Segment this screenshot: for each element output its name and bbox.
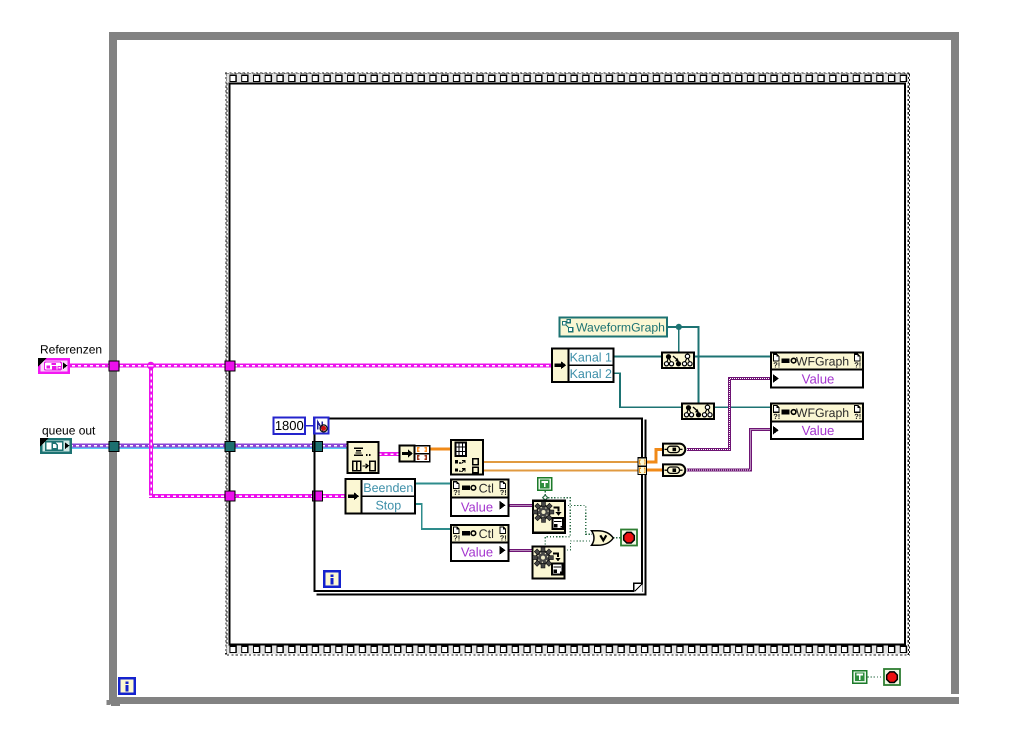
- dequeue element node: [348, 442, 379, 473]
- svg-text:Stop: Stop: [375, 498, 401, 512]
- wire: tunnel 1 to To-Variant 1: [646, 449, 663, 462]
- To Variant node 2: [663, 464, 685, 476]
- tunnel: Referenzen cluster through outer loop border: [109, 361, 119, 371]
- wire: tunnel 2 to To-Variant 2: [646, 469, 663, 472]
- flat sequence bottom sprocket band: [227, 645, 908, 654]
- svg-text:Ctl: Ctl: [479, 527, 494, 541]
- junction dot on WaveformGraph wire: [676, 324, 682, 330]
- svg-text:1800: 1800: [275, 418, 304, 433]
- svg-text:Kanal 1: Kanal 1: [570, 350, 612, 364]
- outer loop condition terminal (stop): [884, 669, 900, 685]
- wire: array row 2 to tunnel: [483, 469, 640, 471]
- wire: type wire branch to Variant-To-Data 2: [545, 498, 570, 547]
- svg-text:WFGraph: WFGraph: [796, 354, 849, 368]
- svg-text:Value: Value: [461, 499, 493, 514]
- property node WFGraph 1: [771, 353, 863, 388]
- svg-text:Ctl: Ctl: [479, 482, 494, 496]
- wire: 2D array from unbundle to matrix node: [430, 447, 452, 450]
- wire: Referenzen cluster wire branch down: [149, 364, 153, 497]
- unbundle by name node Kanal 1 / Kanal 2: [552, 349, 614, 383]
- wire: Referenzen cluster wire (terminal to Kanal unbundle): [66, 364, 553, 368]
- wire: queue out refnum wire from terminal into inner loop: [70, 443, 348, 449]
- unbundle by name node Beenden/Stop: [346, 479, 416, 514]
- wire: variant wire Ctl2 Value to Variant-To-Data 2: [509, 549, 533, 552]
- unbundle cluster node (2 array outputs): [400, 446, 430, 462]
- tunnel: cluster branch into inner while loop: [313, 491, 323, 501]
- to-more-specific-class node 2: [682, 404, 714, 420]
- svg-text:WaveformGraph: WaveformGraph: [576, 320, 665, 334]
- WaveformGraph control reference constant: [560, 318, 668, 337]
- svg-text:?!: ?!: [500, 488, 507, 497]
- wire: Stop boolean refnum to Ctl property node 2: [415, 504, 451, 529]
- matrix index node: [451, 440, 483, 475]
- tunnel: cluster branch through sequence border: [225, 491, 235, 501]
- to-more-specific-class node 1: [662, 353, 694, 369]
- svg-text:?!: ?!: [773, 412, 780, 421]
- svg-text:?!: ?!: [453, 488, 460, 497]
- tunnel: array 2 out of inner loop: [638, 466, 647, 474]
- terminal Referenzen (cluster of control refnums): [38, 358, 69, 373]
- wire: boolean T constant to outer loop condition: [868, 676, 885, 678]
- inner while loop border: [315, 419, 646, 595]
- svg-text:Value: Value: [802, 371, 835, 386]
- wire: boolean Variant2 to OR gate: [564, 541, 592, 550]
- junction on Referenzen wire: [147, 362, 155, 370]
- inner while loop resize fold corner: [634, 583, 643, 592]
- tunnel: queue out through outer loop border: [109, 442, 119, 452]
- wire: variant wire To-Variant 1 to WFGraph1 Value: [687, 378, 771, 449]
- inner loop condition terminal (stop): [621, 530, 637, 546]
- svg-text:?!: ?!: [500, 533, 507, 542]
- wire: array row 1 to tunnel: [483, 461, 640, 463]
- wire: boolean Variant1 to OR gate: [565, 506, 592, 535]
- Variant To Data node 1: [533, 501, 565, 533]
- outer loop iteration terminal i: [119, 678, 135, 694]
- svg-text:?!: ?!: [854, 412, 861, 421]
- Variant To Data node 2: [533, 546, 565, 578]
- OR gate: [592, 531, 614, 546]
- flat sequence inner black border: [230, 84, 906, 645]
- numeric constant 1800: [274, 418, 306, 435]
- wire: T constant to type input: [544, 491, 546, 495]
- property node WFGraph 2: [771, 404, 863, 439]
- tunnel: queue out through sequence border: [225, 442, 235, 452]
- wire: Kanal 1 refnum to WFGraph property node 1: [614, 355, 772, 357]
- tunnel: Referenzen cluster through sequence border: [225, 361, 235, 371]
- svg-text:Value: Value: [461, 544, 493, 559]
- svg-text:Value: Value: [802, 423, 835, 438]
- wire: 1800 to N node: [305, 425, 314, 427]
- loop timing N node on inner loop corner: [314, 418, 328, 434]
- boolean constant T (outer loop): [852, 670, 868, 684]
- property node Ctl 2: [451, 525, 509, 561]
- wire: Kanal 2 refnum to WFGraph property node 2: [614, 373, 772, 407]
- tunnel: array 1 out of inner loop: [638, 458, 647, 466]
- flat sequence top sprocket band: [227, 74, 908, 83]
- wire: WaveformGraph reference wire: [667, 327, 699, 404]
- terminal queue out (queue refnum): [40, 438, 71, 453]
- svg-text:?!: ?!: [854, 360, 861, 369]
- wire: variant wire Ctl1 Value to Variant-To-Data 1: [509, 504, 534, 507]
- wire: variant wire To-Variant 2 to WFGraph2 Value: [687, 430, 771, 471]
- svg-text:?!: ?!: [453, 533, 460, 542]
- svg-text:queue out: queue out: [42, 423, 96, 437]
- wire: boolean OR to loop condition: [613, 537, 621, 539]
- wire: Beenden boolean refnum to Ctl property node 1: [415, 483, 451, 485]
- tunnel: queue into inner while loop: [313, 442, 323, 452]
- svg-text:Kanal 2: Kanal 2: [570, 367, 612, 381]
- svg-text:Referenzen: Referenzen: [40, 342, 102, 356]
- flat sequence structure frame (film-strip border): [225, 73, 910, 656]
- wire: Referenzen cluster wire branch to Beenden/Stop unbundle: [149, 494, 347, 498]
- boolean constant T (inner loop): [537, 477, 553, 491]
- svg-text:Beenden: Beenden: [363, 481, 413, 495]
- To Variant node 1: [663, 444, 685, 456]
- outer while loop border (gray frame): [107, 32, 960, 706]
- type input diamond on Variant-To-Data 1: [543, 495, 548, 500]
- svg-text:WFGraph: WFGraph: [796, 406, 849, 420]
- wire: cluster wire dequeue to unbundle: [379, 452, 400, 456]
- wire: branch down to class specifier 1: [678, 327, 680, 353]
- svg-text:?!: ?!: [773, 360, 780, 369]
- property node Ctl 1: [451, 480, 509, 517]
- inner loop iteration terminal i: [324, 571, 340, 587]
